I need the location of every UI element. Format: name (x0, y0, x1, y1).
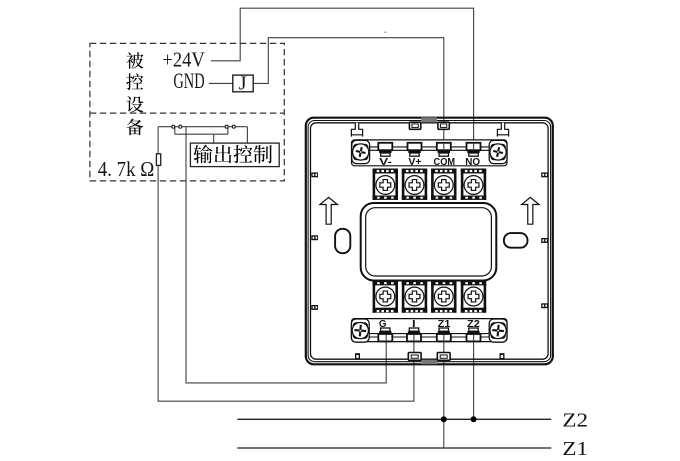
svg-text:4. 7k Ω: 4. 7k Ω (98, 157, 155, 181)
svg-text:Z1: Z1 (562, 438, 588, 460)
svg-text:COM: COM (434, 157, 456, 168)
svg-text:Z2: Z2 (467, 319, 480, 330)
svg-text:V+: V+ (408, 157, 421, 168)
svg-text:NO: NO (465, 157, 480, 168)
svg-text:J: J (239, 73, 247, 95)
svg-text:GND: GND (173, 68, 204, 93)
svg-text:Z2: Z2 (562, 409, 588, 431)
svg-text:I: I (412, 319, 416, 330)
svg-text:Z1: Z1 (438, 319, 451, 330)
svg-text:G: G (379, 319, 387, 330)
svg-text:V-: V- (379, 157, 392, 168)
